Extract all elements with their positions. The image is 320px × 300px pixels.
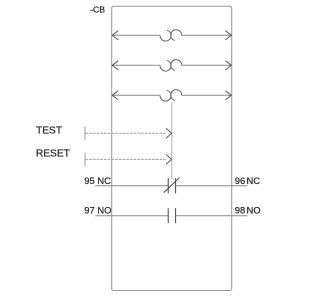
thermal element 2 right loop xyxy=(171,60,182,71)
phase line L3 wire left segment xyxy=(112,94,160,96)
thermal element 2 left loop xyxy=(160,60,171,71)
relay outline box -CB xyxy=(112,6,232,290)
svg-text:NO: NO xyxy=(247,204,261,215)
svg-text:TEST: TEST xyxy=(36,126,62,137)
svg-text:95 NC: 95 NC xyxy=(84,175,111,186)
thermal element 3 left loop xyxy=(160,90,171,101)
phase line L1 wire right segment xyxy=(182,34,232,36)
phase line L2 right arrowhead xyxy=(225,61,231,70)
wire 97 to NO contact xyxy=(95,215,168,217)
TEST arrowhead xyxy=(166,128,172,138)
NC contact 95-96 left bar xyxy=(167,178,169,193)
TEST terminal tick xyxy=(84,127,86,141)
NC contact 95-96 right bar xyxy=(175,178,177,193)
svg-text:97 NO: 97 NO xyxy=(84,204,111,215)
phase line L2 left arrowhead xyxy=(112,61,118,70)
NO contact 97-98 right bar xyxy=(175,208,177,223)
phase line L1 left arrowhead xyxy=(112,31,118,40)
svg-text:-CB: -CB xyxy=(90,5,105,15)
trip linkage vertical wire xyxy=(171,103,173,179)
phase line L1 wire left segment xyxy=(112,34,160,36)
svg-text:RESET: RESET xyxy=(36,149,70,160)
phase line L2 wire right segment xyxy=(182,64,232,66)
wire NC contact to 96 xyxy=(176,185,248,187)
wire NO contact to 98 xyxy=(176,215,248,217)
phase line L1 right arrowhead xyxy=(225,31,231,40)
thermal element 1 right loop xyxy=(171,30,182,41)
RESET arrowhead xyxy=(166,154,172,164)
phase line L3 right arrowhead xyxy=(225,91,231,100)
svg-text:96: 96 xyxy=(235,175,245,186)
wire 95 to NC contact xyxy=(95,185,168,187)
phase line L3 wire right segment xyxy=(182,94,232,96)
phase line L2 wire left segment xyxy=(112,64,160,66)
phase line L3 left arrowhead xyxy=(112,91,118,100)
RESET terminal tick xyxy=(84,153,86,167)
NO contact 97-98 left bar xyxy=(167,208,169,223)
RESET actuation dashed wire xyxy=(86,158,167,160)
svg-text:NC: NC xyxy=(247,175,261,186)
TEST actuation dashed wire xyxy=(86,132,167,134)
NC contact 95-96 moving contact slash xyxy=(164,178,180,193)
thermal element 1 left loop xyxy=(160,30,171,41)
thermal element 3 right loop xyxy=(171,90,182,101)
svg-text:98: 98 xyxy=(235,204,245,215)
